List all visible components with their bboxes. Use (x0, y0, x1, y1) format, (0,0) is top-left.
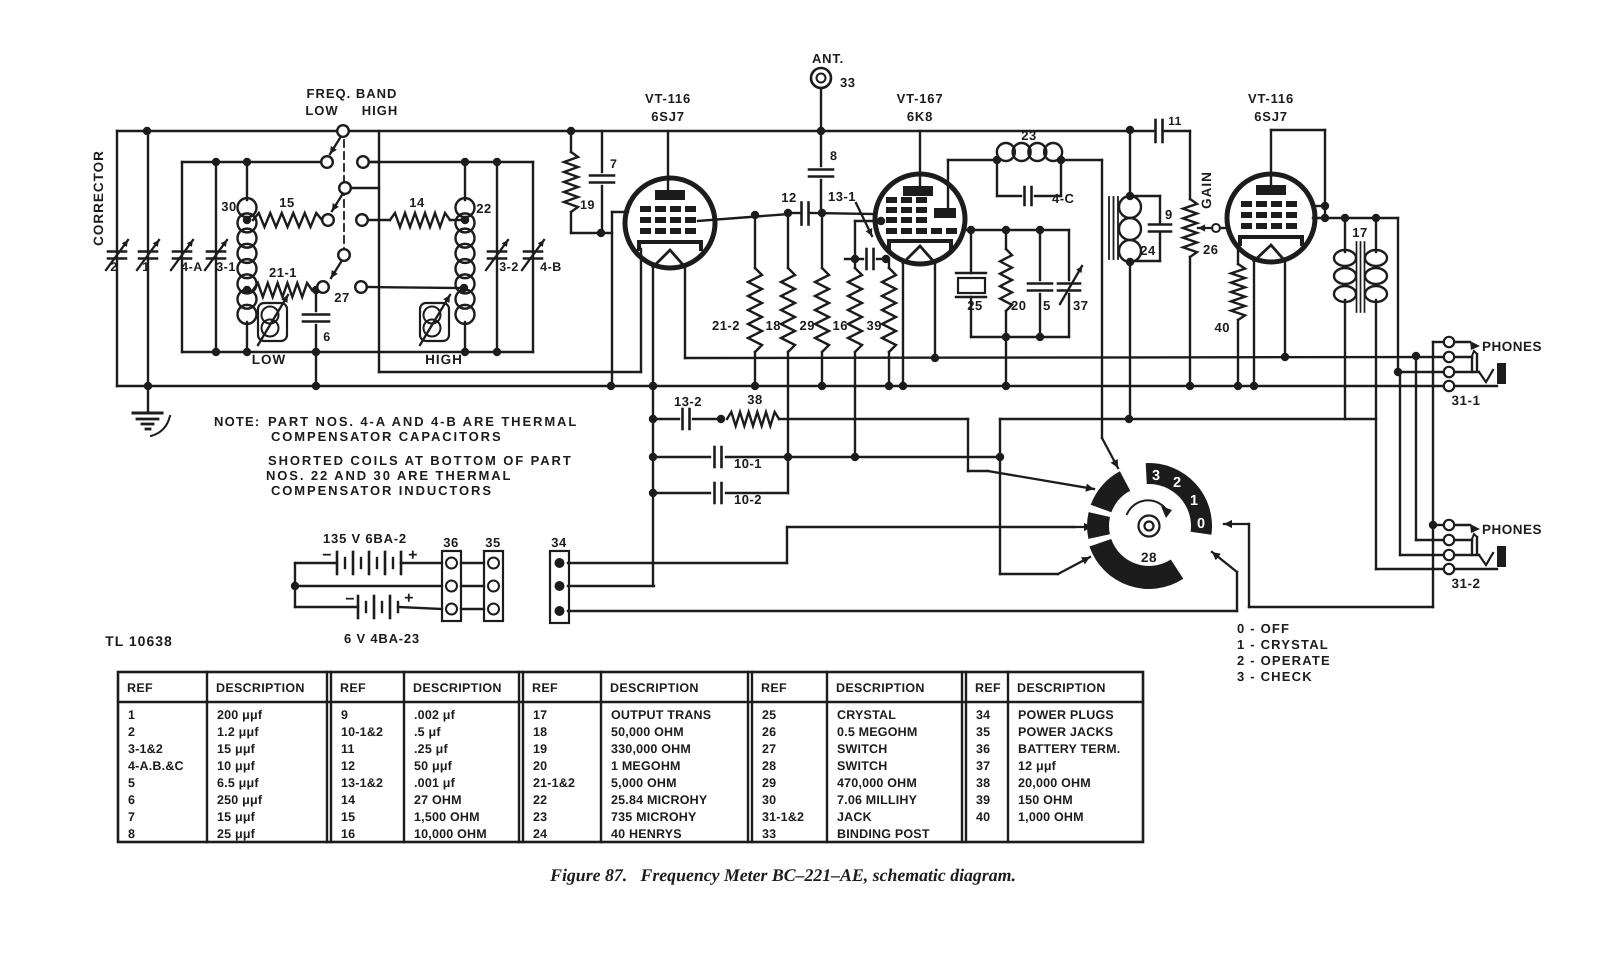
svg-text:735 MICROHY: 735 MICROHY (611, 810, 697, 824)
svg-text:25: 25 (967, 298, 982, 313)
svg-text:22: 22 (533, 793, 547, 807)
svg-text:.002 μf: .002 μf (414, 708, 456, 722)
svg-text:REF: REF (761, 681, 787, 695)
svg-text:.5 μf: .5 μf (414, 725, 441, 739)
svg-text:9: 9 (1165, 207, 1173, 222)
svg-text:1,500 OHM: 1,500 OHM (414, 810, 480, 824)
svg-text:3 - CHECK: 3 - CHECK (1237, 669, 1313, 684)
svg-text:21-2: 21-2 (712, 318, 740, 333)
svg-text:2: 2 (110, 260, 117, 274)
svg-text:6K8: 6K8 (907, 109, 933, 124)
svg-text:23: 23 (1021, 128, 1036, 143)
svg-text:18: 18 (533, 725, 547, 739)
svg-text:6SJ7: 6SJ7 (651, 109, 685, 124)
svg-text:1: 1 (1190, 493, 1198, 509)
svg-text:2 - OPERATE: 2 - OPERATE (1237, 653, 1331, 668)
svg-text:33: 33 (840, 75, 855, 90)
svg-text:DESCRIPTION: DESCRIPTION (610, 681, 699, 695)
svg-text:6.5 μμf: 6.5 μμf (217, 776, 259, 790)
svg-text:34: 34 (551, 535, 567, 550)
svg-text:150 OHM: 150 OHM (1018, 793, 1073, 807)
svg-text:4-C: 4-C (1052, 191, 1075, 206)
svg-text:DESCRIPTION: DESCRIPTION (836, 681, 925, 695)
svg-text:20,000 OHM: 20,000 OHM (1018, 776, 1091, 790)
svg-text:8: 8 (128, 827, 135, 841)
svg-text:40 HENRYS: 40 HENRYS (611, 827, 682, 841)
svg-text:25.84 MICROHY: 25.84 MICROHY (611, 793, 708, 807)
svg-text:12: 12 (341, 759, 355, 773)
svg-text:10 μμf: 10 μμf (217, 759, 256, 773)
svg-text:COMPENSATOR INDUCTORS: COMPENSATOR INDUCTORS (271, 483, 493, 498)
svg-text:21-1&2: 21-1&2 (533, 776, 575, 790)
svg-text:PHONES: PHONES (1482, 339, 1542, 354)
svg-text:1 MEGOHM: 1 MEGOHM (611, 759, 681, 773)
svg-text:12: 12 (781, 190, 796, 205)
svg-text:22: 22 (476, 201, 491, 216)
svg-text:250 μμf: 250 μμf (217, 793, 263, 807)
svg-text:21-1: 21-1 (269, 265, 297, 280)
svg-text:POWER JACKS: POWER JACKS (1018, 725, 1113, 739)
svg-text:5: 5 (128, 776, 135, 790)
svg-text:28: 28 (762, 759, 776, 773)
svg-text:29: 29 (762, 776, 776, 790)
svg-text:25 μμf: 25 μμf (217, 827, 256, 841)
svg-text:35: 35 (976, 725, 990, 739)
svg-text:0.5 MEGOHM: 0.5 MEGOHM (837, 725, 918, 739)
svg-text:6SJ7: 6SJ7 (1254, 109, 1288, 124)
svg-text:JACK: JACK (837, 810, 872, 824)
svg-text:4-A.B.&C: 4-A.B.&C (128, 759, 184, 773)
svg-text:11: 11 (341, 742, 355, 756)
svg-text:Figure 87. Frequency Meter B: Figure 87. Frequency Meter BC–221–AE, sc… (549, 865, 1016, 885)
svg-text:7: 7 (610, 157, 617, 171)
svg-text:10-1: 10-1 (734, 456, 762, 471)
svg-text:16: 16 (341, 827, 355, 841)
svg-text:37: 37 (1073, 298, 1088, 313)
svg-text:40: 40 (1215, 320, 1230, 335)
svg-text:7: 7 (128, 810, 135, 824)
svg-text:2: 2 (1173, 475, 1181, 491)
svg-text:24: 24 (533, 827, 547, 841)
svg-text:25: 25 (762, 708, 776, 722)
svg-text:27: 27 (334, 290, 349, 305)
svg-text:28: 28 (1141, 550, 1157, 565)
svg-text:15: 15 (341, 810, 355, 824)
svg-text:26: 26 (762, 725, 776, 739)
svg-text:37: 37 (976, 759, 990, 773)
svg-text:1 - CRYSTAL: 1 - CRYSTAL (1237, 637, 1329, 652)
svg-text:31-2: 31-2 (1451, 576, 1480, 591)
svg-text:20: 20 (533, 759, 547, 773)
svg-text:200 μμf: 200 μμf (217, 708, 263, 722)
svg-text:26: 26 (1203, 242, 1218, 257)
svg-text:34: 34 (976, 708, 990, 722)
svg-text:SHORTED COILS AT BOTTOM OF PAR: SHORTED COILS AT BOTTOM OF PART (268, 453, 573, 468)
svg-text:+: + (404, 590, 414, 607)
svg-text:1.2 μμf: 1.2 μμf (217, 725, 259, 739)
svg-text:6 V 4BA-23: 6 V 4BA-23 (344, 631, 420, 646)
svg-text:+: + (408, 547, 418, 564)
svg-text:50 μμf: 50 μμf (414, 759, 453, 773)
svg-text:4-B: 4-B (540, 260, 562, 274)
svg-text:3-1&2: 3-1&2 (128, 742, 163, 756)
svg-text:11: 11 (1168, 114, 1182, 128)
svg-text:SWITCH: SWITCH (837, 742, 888, 756)
svg-text:OUTPUT TRANS: OUTPUT TRANS (611, 708, 711, 722)
svg-text:38: 38 (976, 776, 990, 790)
svg-text:NOTE:: NOTE: (214, 414, 260, 429)
svg-text:−: − (322, 547, 332, 564)
svg-text:13-1: 13-1 (828, 189, 856, 204)
svg-text:HIGH: HIGH (425, 352, 463, 367)
svg-text:FREQ. BAND: FREQ. BAND (307, 86, 398, 101)
svg-text:33: 33 (762, 827, 776, 841)
svg-text:10,000 OHM: 10,000 OHM (414, 827, 487, 841)
svg-text:4-A: 4-A (181, 260, 203, 274)
svg-text:470,000 OHM: 470,000 OHM (837, 776, 917, 790)
svg-text:13-1&2: 13-1&2 (341, 776, 383, 790)
svg-text:50,000 OHM: 50,000 OHM (611, 725, 684, 739)
svg-text:15: 15 (279, 195, 294, 210)
svg-text:39: 39 (976, 793, 990, 807)
svg-text:10-1&2: 10-1&2 (341, 725, 383, 739)
svg-text:36: 36 (976, 742, 990, 756)
svg-text:DESCRIPTION: DESCRIPTION (216, 681, 305, 695)
svg-text:7.06 MILLIHY: 7.06 MILLIHY (837, 793, 918, 807)
svg-text:8: 8 (830, 149, 837, 163)
svg-text:NOS. 22 AND 30 ARE THERMAL: NOS. 22 AND 30 ARE THERMAL (266, 468, 512, 483)
svg-text:5: 5 (1043, 298, 1051, 313)
svg-text:10-2: 10-2 (734, 492, 762, 507)
svg-text:38: 38 (747, 392, 762, 407)
svg-text:1: 1 (128, 708, 135, 722)
svg-text:2: 2 (128, 725, 135, 739)
svg-text:LOW: LOW (305, 103, 338, 118)
svg-text:POWER PLUGS: POWER PLUGS (1018, 708, 1114, 722)
svg-text:BINDING POST: BINDING POST (837, 827, 930, 841)
svg-text:3-1: 3-1 (216, 260, 236, 274)
svg-text:14: 14 (409, 195, 425, 210)
svg-text:GAIN: GAIN (1199, 171, 1214, 209)
svg-text:14: 14 (341, 793, 355, 807)
svg-text:REF: REF (127, 681, 153, 695)
svg-text:18: 18 (766, 318, 781, 333)
svg-text:3: 3 (1152, 468, 1160, 484)
svg-text:30: 30 (221, 199, 236, 214)
svg-text:135 V 6BA-2: 135 V 6BA-2 (323, 531, 407, 546)
svg-text:27: 27 (762, 742, 776, 756)
svg-text:20: 20 (1011, 298, 1026, 313)
svg-text:DESCRIPTION: DESCRIPTION (1017, 681, 1106, 695)
svg-text:.25 μf: .25 μf (414, 742, 448, 756)
svg-text:PHONES: PHONES (1482, 522, 1542, 537)
svg-text:REF: REF (340, 681, 366, 695)
svg-text:5,000 OHM: 5,000 OHM (611, 776, 677, 790)
svg-text:LOW: LOW (252, 352, 287, 367)
svg-text:17: 17 (1352, 225, 1367, 240)
svg-text:COMPENSATOR CAPACITORS: COMPENSATOR CAPACITORS (271, 429, 503, 444)
svg-text:35: 35 (485, 535, 500, 550)
svg-text:30: 30 (762, 793, 776, 807)
svg-text:3-2: 3-2 (499, 260, 519, 274)
svg-text:13-2: 13-2 (674, 394, 702, 409)
svg-text:0 - OFF: 0 - OFF (1237, 621, 1290, 636)
svg-text:0: 0 (1197, 516, 1205, 532)
svg-text:.001 μf: .001 μf (414, 776, 456, 790)
svg-text:19: 19 (580, 198, 595, 212)
svg-text:31-1: 31-1 (1451, 393, 1480, 408)
svg-text:16: 16 (833, 318, 848, 333)
svg-text:VT-116: VT-116 (1248, 91, 1294, 106)
svg-text:19: 19 (533, 742, 547, 756)
svg-text:CRYSTAL: CRYSTAL (837, 708, 896, 722)
svg-text:31-1&2: 31-1&2 (762, 810, 804, 824)
svg-text:−: − (345, 591, 355, 608)
svg-text:REF: REF (532, 681, 558, 695)
svg-text:HIGH: HIGH (362, 103, 399, 118)
svg-text:SWITCH: SWITCH (837, 759, 888, 773)
svg-text:DESCRIPTION: DESCRIPTION (413, 681, 502, 695)
svg-text:6: 6 (323, 330, 330, 344)
svg-text:12 μμf: 12 μμf (1018, 759, 1057, 773)
svg-text:27 OHM: 27 OHM (414, 793, 462, 807)
svg-text:29: 29 (800, 318, 815, 333)
svg-text:17: 17 (533, 708, 547, 722)
svg-text:1,000 OHM: 1,000 OHM (1018, 810, 1084, 824)
svg-text:REF: REF (975, 681, 1001, 695)
svg-text:39: 39 (867, 318, 882, 333)
svg-text:15 μμf: 15 μμf (217, 810, 256, 824)
svg-text:40: 40 (976, 810, 990, 824)
svg-text:ANT.: ANT. (812, 51, 844, 66)
svg-text:9: 9 (341, 708, 348, 722)
svg-text:VT-116: VT-116 (645, 91, 691, 106)
svg-text:BATTERY TERM.: BATTERY TERM. (1018, 742, 1120, 756)
svg-text:6: 6 (128, 793, 135, 807)
svg-text:1: 1 (142, 260, 149, 274)
svg-text:24: 24 (1140, 243, 1156, 258)
svg-text:TL 10638: TL 10638 (105, 633, 173, 649)
svg-text:330,000 OHM: 330,000 OHM (611, 742, 691, 756)
svg-text:VT-167: VT-167 (897, 91, 944, 106)
svg-text:PART NOS. 4-A AND 4-B ARE THER: PART NOS. 4-A AND 4-B ARE THERMAL (268, 414, 578, 429)
svg-text:CORRECTOR: CORRECTOR (91, 150, 106, 246)
svg-text:36: 36 (443, 535, 458, 550)
svg-text:23: 23 (533, 810, 547, 824)
svg-text:15 μμf: 15 μμf (217, 742, 256, 756)
